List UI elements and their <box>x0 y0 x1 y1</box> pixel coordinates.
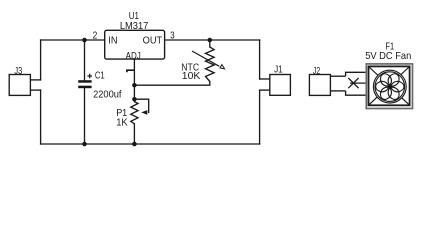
svg-text:LM317: LM317 <box>120 21 149 32</box>
svg-text:J2: J2 <box>313 66 320 77</box>
wire NTC top lead <box>209 40 211 47</box>
svg-text:2: 2 <box>93 31 98 42</box>
wire ground rail <box>41 143 260 145</box>
wire J3 pin2 dropper <box>40 90 42 144</box>
wire J1 pin1 stub <box>260 78 270 80</box>
junction node NTC top <box>208 38 213 43</box>
C1 polarity plus sign <box>87 74 92 79</box>
svg-text:3: 3 <box>170 31 175 42</box>
junction node ADJ/NTC <box>132 83 137 88</box>
P1 wiper arrowhead <box>141 110 147 115</box>
wire J2 pin2 jog down <box>346 91 367 95</box>
svg-text:10K: 10K <box>182 71 201 82</box>
capacitor C1 bottom plate <box>78 86 91 89</box>
wire P1 wiper link <box>134 99 148 112</box>
wire J2 pin1 jog up <box>346 72 367 76</box>
svg-text:5V DC Fan: 5V DC Fan <box>365 51 411 62</box>
svg-text:2200uf: 2200uf <box>93 89 122 100</box>
svg-text:IN: IN <box>108 35 117 47</box>
junction node C1 ground <box>82 142 87 147</box>
fan blade petals <box>376 72 404 102</box>
junction node wiper <box>132 97 137 102</box>
crossed wires X mark <box>348 78 358 88</box>
connector J1 <box>270 75 291 96</box>
junction node P1 ground <box>132 142 137 147</box>
wire fan middle lead <box>350 82 367 84</box>
fan frame diagonals <box>369 67 409 105</box>
fan inner ring <box>375 72 405 102</box>
wire J3 pin1 riser <box>40 40 42 80</box>
wire P1 bottom lead <box>133 124 135 144</box>
junction node C1 top <box>82 38 87 43</box>
wire J1 pin2 stub <box>260 89 270 91</box>
svg-text:ADJ: ADJ <box>126 50 141 62</box>
fan F1 outer frame <box>366 64 412 109</box>
wire J3 pin2 stub <box>31 89 41 91</box>
wire ADJ pin lead <box>133 59 135 102</box>
svg-text:1K: 1K <box>116 117 128 128</box>
svg-text:C1: C1 <box>95 70 105 81</box>
wire OUT dropper to J1 <box>259 40 261 79</box>
fan outer ring <box>373 70 406 103</box>
thermistor NTC zigzag <box>206 47 215 82</box>
svg-text:OUT: OUT <box>143 35 163 47</box>
svg-text:J1: J1 <box>274 65 283 76</box>
wire J2 pin2 stub <box>330 90 345 92</box>
capacitor C1 top plate <box>78 80 91 83</box>
potentiometer P1 zigzag <box>131 102 138 124</box>
connector J3 <box>9 75 30 96</box>
wire ground riser to J1 <box>259 90 261 144</box>
wire J3 pin1 stub <box>31 79 41 81</box>
wire C1 bottom lead <box>84 88 86 144</box>
NTC arrow line <box>192 51 219 66</box>
svg-text:J3: J3 <box>14 66 22 77</box>
wire top rail to IN <box>41 39 105 41</box>
wire OUT rail <box>165 39 260 41</box>
regulator U1 LM317 box <box>105 30 165 59</box>
connector J2 <box>309 75 330 96</box>
fan hub <box>388 85 392 89</box>
wire NTC bottom to ADJ node <box>134 82 209 86</box>
pin number 1 rotated at ADJ <box>127 70 134 72</box>
fan F1 inner frame <box>369 66 410 105</box>
wire C1 top lead <box>84 40 86 80</box>
NTC arrowhead <box>220 65 225 69</box>
wire J2 pin1 stub <box>330 75 345 77</box>
